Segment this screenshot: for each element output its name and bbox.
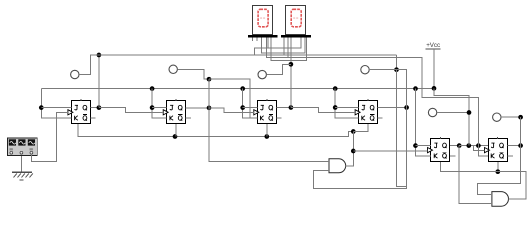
JK flip-flop U3	[254, 99, 277, 124]
wire Q1 riser	[98, 55, 100, 108]
node clear U2	[173, 134, 178, 139]
wire Q5 to A2	[459, 146, 492, 204]
wire Q3 riser to DISP2	[290, 38, 292, 108]
node Q2 upper	[207, 77, 212, 82]
node rail-U4	[333, 86, 338, 91]
AND gate A2	[492, 192, 509, 207]
AND gate A1	[329, 159, 346, 173]
wire U5 Q out	[450, 145, 459, 147]
wire Q1 to U2 CLK	[99, 108, 163, 113]
wire U2 Q out	[186, 107, 209, 109]
wire probe X6	[501, 116, 521, 118]
wire rail drop to U4 J/K	[335, 89, 358, 118]
probe X1	[71, 70, 79, 78]
node Q4	[404, 105, 409, 110]
7-segment display DISP1 digit 0	[253, 6, 273, 35]
wire Vcc corner	[434, 88, 469, 145]
wire bus A	[99, 54, 397, 56]
wire probe X5	[437, 112, 469, 114]
probe X2	[169, 65, 177, 73]
wire U2 bottom pin	[175, 124, 177, 137]
wire U3 Q out	[276, 107, 291, 109]
wire Q5 row	[459, 145, 488, 147]
node U2 J	[150, 105, 155, 110]
wire U5 Qbar stub	[450, 155, 456, 157]
wire U4 J input	[335, 107, 358, 109]
node Q1 bus	[97, 53, 102, 58]
wire U6 Q out	[508, 145, 521, 147]
wire Vcc rail	[41, 88, 434, 90]
node Q5	[457, 143, 462, 148]
wire Q2 branch to U3 K	[209, 79, 250, 118]
wire U4 Q out	[378, 107, 407, 109]
node rail-U2	[150, 86, 155, 91]
wire probe X3	[266, 64, 291, 74]
node J6 b	[476, 143, 481, 148]
JK flip-flop U5	[428, 137, 450, 162]
wire U1 J input	[41, 107, 71, 109]
wire bus B	[267, 38, 479, 146]
7-segment display DISP2 digit 0	[286, 6, 306, 35]
node Q1	[97, 105, 102, 110]
node A1 out	[351, 149, 356, 154]
node U4 J	[333, 105, 338, 110]
probe X4	[361, 66, 369, 74]
7-segment display DISP1 pin bar	[248, 35, 278, 38]
wire U3 Qbar stub	[276, 117, 281, 119]
probe X5	[428, 108, 436, 116]
node U1 J	[39, 105, 44, 110]
node rail-U5	[413, 86, 418, 91]
JK flip-flop U1	[68, 99, 91, 124]
node clear U4	[351, 129, 356, 134]
node J6 a	[466, 143, 471, 148]
probe X6	[493, 113, 501, 121]
wire Q6 loop to A2	[478, 117, 521, 194]
wire Q2 drop to A1	[209, 79, 329, 161]
node busA-Q4	[394, 67, 399, 72]
wire U2 J input	[152, 107, 167, 109]
wire drop to U6 K	[478, 146, 488, 157]
wire Q3 to U4 CLK	[291, 108, 355, 113]
wire rail drop to U5 J/K	[416, 89, 432, 157]
wire U1 Qbar stub	[90, 117, 95, 119]
JK flip-flop U4	[355, 99, 377, 124]
node clear U6	[495, 169, 500, 174]
node Vcc entry	[432, 86, 437, 91]
wire U1 Q out	[90, 107, 99, 109]
wire U3 bottom pin	[266, 124, 268, 137]
wire rail drop to U1 J/K	[41, 89, 71, 118]
wire bus A drop	[396, 55, 398, 70]
wire Q4 branch down	[397, 70, 407, 187]
node U5 J	[413, 143, 418, 148]
wire link1 to DISP2	[268, 38, 301, 48]
wire U5 J input	[416, 145, 432, 147]
wire DISP2 pin to busB	[287, 38, 289, 58]
node U3 J	[240, 105, 245, 110]
wire DISP1 stub1	[252, 38, 254, 41]
wire A1 output	[346, 132, 354, 166]
wire U6 bottom pin	[497, 162, 499, 172]
wire DISP1-DISP2 link3	[271, 38, 306, 61]
wire U3 J input	[243, 107, 258, 109]
node rail-U3	[240, 86, 245, 91]
wire clear rail 2	[441, 162, 527, 199]
wire A1 to U5 CLK	[353, 150, 427, 152]
wire probe X1	[79, 55, 99, 75]
wire DISP1-DISP2 link1	[255, 38, 268, 55]
wire U4 bottom pin	[353, 124, 368, 132]
wire rail drop to U3 J/K	[243, 89, 258, 118]
wire clear rail	[78, 124, 353, 137]
ground	[12, 156, 33, 180]
wire rail drop to U2 J/K	[152, 89, 167, 118]
svg-text:+Vcc: +Vcc	[426, 42, 440, 49]
wire U6 Qbar stub	[508, 155, 513, 157]
wire probe X2	[177, 69, 209, 79]
wire DISP2 pin to busA	[283, 38, 285, 55]
JK flip-flop U6	[485, 137, 508, 162]
node X5	[467, 110, 472, 115]
node clear U3	[264, 134, 269, 139]
wire jog to U6 CLK	[474, 146, 485, 151]
wire DISP1 stub2	[256, 38, 258, 41]
function generator XFG1	[8, 138, 38, 156]
wire Q2 to U3 CLK	[209, 108, 254, 112]
node Q2	[207, 106, 212, 111]
wire U4 Qbar stub	[378, 117, 383, 119]
wire U2 Qbar stub	[186, 117, 191, 119]
node Q3	[289, 105, 294, 110]
+Vcc power symbol	[425, 42, 440, 88]
wire DISP1-DISP2 link2	[262, 38, 305, 53]
wire probe X4	[369, 69, 396, 71]
node Q6	[518, 143, 523, 148]
wire XFG1 to U1 CLK	[31, 112, 68, 161]
7-segment display DISP2 pin bar	[281, 35, 311, 38]
probe X3	[258, 70, 266, 78]
wire Q4 link	[313, 70, 406, 189]
node X6	[518, 115, 523, 120]
node Q3 upper	[289, 62, 294, 67]
JK flip-flop U2	[163, 99, 185, 124]
